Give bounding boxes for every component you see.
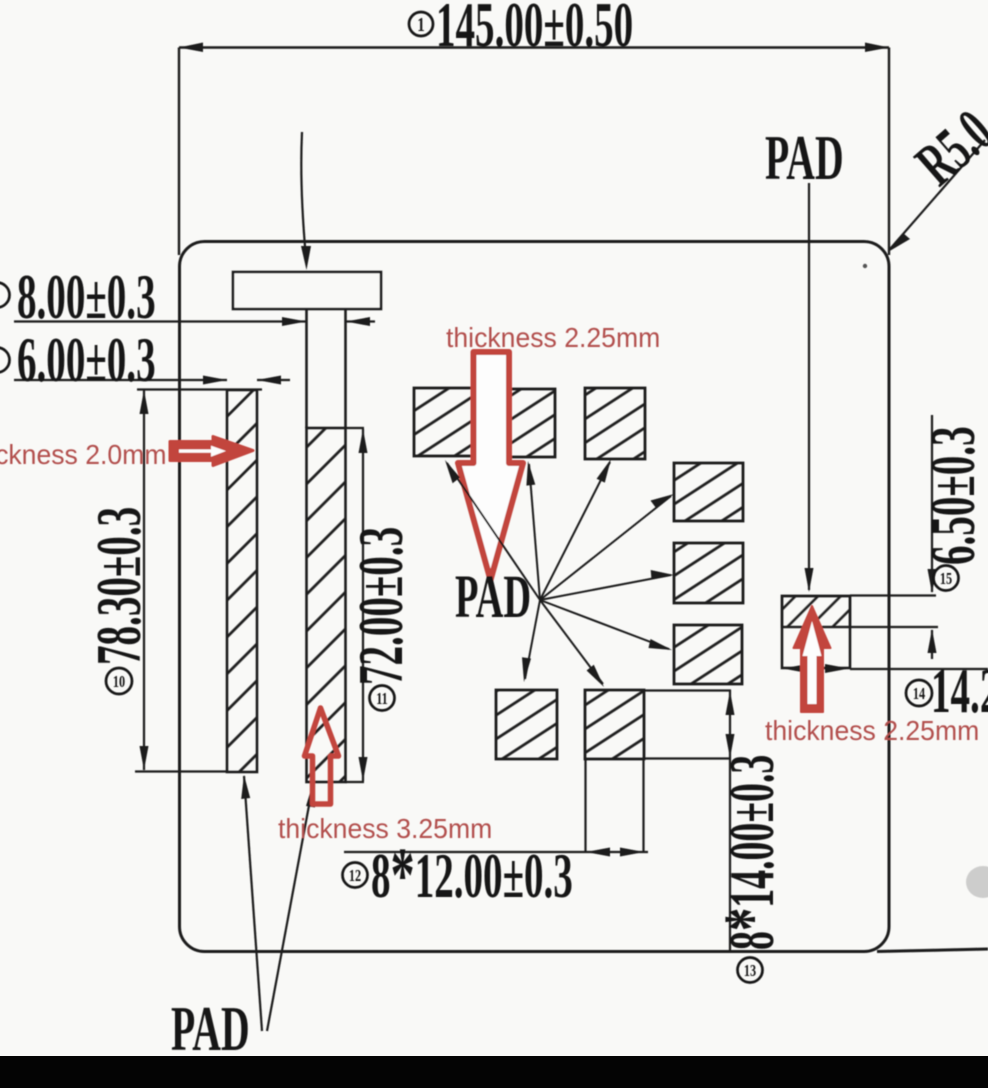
leader line into T-bar top xyxy=(301,132,306,258)
dimension 6.00 right stub xyxy=(257,379,290,381)
svg-text:14: 14 xyxy=(913,685,926,703)
dimension 6.50 lower stub xyxy=(931,630,933,659)
dimension 78.30 vertical line xyxy=(143,390,145,770)
svg-text:145.00±0.50: 145.00±0.50 xyxy=(436,0,633,60)
svg-text:15: 15 xyxy=(940,570,952,588)
label 14 circle xyxy=(906,680,932,706)
svg-text:10: 10 xyxy=(113,673,125,691)
bar 2 bottom edge extension xyxy=(345,781,364,783)
label 8 circle (clipped at left edge) xyxy=(0,283,10,308)
pad H right extension down xyxy=(642,759,644,852)
right pad top extension line xyxy=(850,594,936,596)
fan arrow to pad F xyxy=(540,600,669,649)
fan arrow to pad G xyxy=(525,600,540,679)
dimension 6.00 arrowhead pointing left xyxy=(257,376,281,385)
dimension 78.30 bottom extension line xyxy=(135,770,228,772)
white inner arrow of left red arrow xyxy=(179,446,226,457)
svg-text:6.00±0.3: 6.00±0.3 xyxy=(17,326,156,396)
svg-text:thickness 3.25mm: thickness 3.25mm xyxy=(278,812,492,844)
svg-text:13: 13 xyxy=(744,962,756,980)
leader arrowhead at bar 1 bottom xyxy=(241,775,250,799)
dimension 8.00 line left part xyxy=(14,320,306,322)
label 13 circle xyxy=(738,958,763,983)
pad D xyxy=(674,463,743,521)
svg-text:12: 12 xyxy=(349,867,361,885)
svg-text:thickness 2.0mm: thickness 2.0mm xyxy=(0,438,166,470)
svg-text:11: 11 xyxy=(376,690,388,708)
right pad divider extension line xyxy=(850,626,938,628)
pad H xyxy=(585,690,644,759)
board outline xyxy=(180,242,890,952)
hatched bar 2 xyxy=(307,428,346,782)
pad H right box bottom edge xyxy=(644,757,731,759)
right pad hatched strip xyxy=(782,596,850,627)
pad A xyxy=(414,388,474,456)
dimension 8*12.00 left arrowhead xyxy=(586,848,610,857)
svg-text:1: 1 xyxy=(417,13,424,36)
dimension 14.2 left arrowhead xyxy=(783,664,807,673)
label 10 circle xyxy=(106,668,132,694)
leader line from PAD top-right down to right pad xyxy=(808,183,810,590)
label 11 circle xyxy=(370,686,395,711)
dimension 8*14.00 bottom arrowhead xyxy=(726,734,735,758)
dimension 145.00 line xyxy=(179,46,889,48)
fan arrow to pad D xyxy=(540,496,671,600)
leader line PAD-bottom to bar 1 xyxy=(244,776,262,1031)
label 12 circle xyxy=(343,863,368,888)
fan arrow to pad A xyxy=(447,463,540,600)
leader arrowhead at right pad top xyxy=(805,568,814,592)
red hollow arrow up (thickness 3.25mm) xyxy=(305,708,339,804)
svg-text:8*14.00±0.3: 8*14.00±0.3 xyxy=(708,755,794,950)
R5 leader line xyxy=(890,140,985,249)
dimension 145.00 right extension line xyxy=(888,48,890,256)
dimension 8.00 right arrowhead pointing right xyxy=(282,317,306,326)
dimension 72.00 vertical line xyxy=(362,429,364,781)
dimension 78.30 top extension line xyxy=(137,388,262,390)
pad F xyxy=(674,625,742,684)
dimension 6.00 arrowhead pointing right xyxy=(203,376,227,385)
dimension 8.00 arrowhead pointing left xyxy=(346,317,370,326)
dimension 8*14.00 top arrowhead xyxy=(726,691,735,715)
white inner arrow of right red arrow xyxy=(803,621,822,704)
dimension 145.00 left arrowhead xyxy=(179,43,203,53)
fan arrow to pad E xyxy=(540,575,671,600)
pad G xyxy=(496,690,557,759)
dimension 78.30 top arrowhead xyxy=(140,390,149,414)
right pad outer rectangle xyxy=(782,596,850,668)
fan arrow to pad C xyxy=(540,462,610,600)
dimension 6.50 down arrowhead xyxy=(928,569,937,593)
T-bar rectangle xyxy=(233,272,381,309)
hatched bar 1 xyxy=(227,390,257,772)
red block arrow down (thickness 2.25mm center) xyxy=(458,352,523,580)
dimension 14.2 bottom line to right edge xyxy=(850,668,988,670)
svg-text:72.00±0.3: 72.00±0.3 xyxy=(347,527,417,685)
dimension 6.00 line left part xyxy=(14,379,227,381)
dimension 145.00 left extension line xyxy=(178,48,180,256)
dimension 8*14.00 vertical line xyxy=(729,690,731,951)
board bottom edge extension to right image edge xyxy=(877,949,988,952)
T-stem right line xyxy=(344,309,347,428)
dimension 14.2 right arrowhead xyxy=(825,664,849,673)
dimension 8.00 right stub xyxy=(346,320,375,322)
R5 leader arrowhead xyxy=(888,233,910,252)
svg-text:78.30±0.3: 78.30±0.3 xyxy=(85,507,155,665)
label 9 circle (clipped at left edge) xyxy=(0,348,10,373)
pad C xyxy=(585,388,645,459)
svg-text:thickness 2.25mm: thickness 2.25mm xyxy=(446,321,660,353)
svg-text:PAD: PAD xyxy=(455,564,531,631)
dimension 145.00 right arrowhead xyxy=(865,43,889,53)
dimension 78.30 bottom arrowhead xyxy=(140,746,149,770)
dimension 8*12.00 right arrowhead xyxy=(620,848,644,857)
red solid arrow up into right pad (thickness 2.25mm right) xyxy=(794,606,831,712)
svg-text:PAD: PAD xyxy=(765,124,844,193)
pad H left extension down xyxy=(584,759,586,852)
gray smudge right edge xyxy=(966,866,988,898)
pad B xyxy=(496,389,555,457)
leader arrowhead at bar 2 bottom xyxy=(306,783,315,808)
leader line PAD-bottom to bar 2 xyxy=(267,784,313,1031)
T-stem left line xyxy=(305,309,308,428)
svg-text:8*12.00±0.3: 8*12.00±0.3 xyxy=(371,832,573,919)
leader arrowhead at T-bar xyxy=(301,246,311,270)
fan arrow to pad H xyxy=(540,600,603,684)
dimension 8*12.00 line xyxy=(344,851,648,853)
dust speck xyxy=(863,264,867,268)
pad E xyxy=(674,543,743,603)
svg-text:thickness 2.25mm: thickness 2.25mm xyxy=(765,714,979,746)
label 15 circle xyxy=(934,566,959,591)
dimension 6.50 up arrowhead xyxy=(928,629,937,653)
dimension 72.00 top arrowhead xyxy=(359,429,368,453)
svg-text:PAD: PAD xyxy=(171,995,250,1064)
svg-text:8.00±0.3: 8.00±0.3 xyxy=(17,263,156,333)
red solid arrow right (thickness 2.0mm) xyxy=(170,437,253,466)
dimension 72.00 bottom arrowhead xyxy=(359,757,368,781)
letterbox bar xyxy=(0,1056,988,1088)
bar 2 top edge extension xyxy=(345,427,364,429)
label 1 circle xyxy=(409,12,433,36)
dimension 6.50 upper line xyxy=(931,415,933,592)
svg-text:6.50±0.3: 6.50±0.3 xyxy=(919,426,988,565)
pad H right box top edge xyxy=(644,689,731,691)
fan arrow to pad B xyxy=(529,464,540,600)
